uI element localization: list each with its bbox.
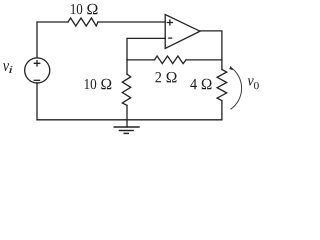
label vi source label v xyxy=(3,63,9,71)
op-amp plus input marker xyxy=(167,20,172,25)
op-amp minus input marker xyxy=(169,37,172,39)
plus sign in source xyxy=(34,61,40,66)
wire: source top up and right to R1 xyxy=(37,22,68,58)
wire: R1 to op-amp noninverting input xyxy=(98,21,165,23)
label 4 ohm value digit xyxy=(190,79,197,89)
v0 polarity arc xyxy=(231,68,242,110)
label 10 ohm value (middle resistor) omega xyxy=(101,79,111,90)
label vi source label subscript i xyxy=(9,66,12,73)
label 10 ohm value (top resistor) omega xyxy=(87,4,97,15)
wire: bottom rail xyxy=(37,119,222,121)
wire: R3 to output branch xyxy=(186,59,222,61)
wire: feedback node to R3 xyxy=(127,59,155,61)
wire: inverting input left and down to feedback node xyxy=(127,38,165,60)
minus sign in source xyxy=(34,79,39,81)
resistor R2 10 ohm (middle, vertical) xyxy=(122,74,130,105)
label 10 ohm value (middle resistor) digits xyxy=(85,79,97,89)
wire: R4 bottom to rail xyxy=(221,101,223,120)
v0 arc arrowhead xyxy=(229,66,233,70)
wire: output branch down to R4 xyxy=(221,60,223,70)
op-amp U1 triangle xyxy=(165,15,200,49)
label v0 output label subscript 0 xyxy=(254,82,259,89)
label 4 ohm value omega xyxy=(202,79,212,90)
label 2 ohm value omega xyxy=(167,72,177,83)
wire: op-amp output right and down xyxy=(200,31,222,60)
wire: feedback node down to R2 xyxy=(126,60,128,74)
ground symbol bars xyxy=(114,127,140,133)
ground stem xyxy=(126,120,128,127)
label v0 output label v xyxy=(248,78,254,85)
resistor R4 4 ohm (right, vertical) xyxy=(217,70,227,101)
wire: R2 bottom to rail xyxy=(126,105,128,119)
resistor R3 2 ohm (feedback, horizontal) xyxy=(155,56,187,64)
resistor R1 10 ohm (top, horizontal) xyxy=(68,18,98,26)
voltage source vi circle xyxy=(25,58,50,83)
label 10 ohm value (top resistor) digits xyxy=(71,4,82,14)
wire: source bottom down to rail xyxy=(36,83,38,120)
label 2 ohm value digit xyxy=(155,72,161,82)
